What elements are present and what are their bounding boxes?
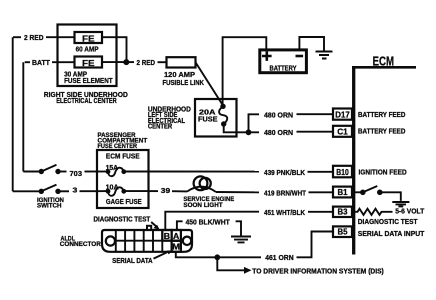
wire battery - to ground — [299, 37, 324, 51]
svg-text:SWITCH: SWITCH — [37, 202, 62, 209]
svg-text:CENTER: CENTER — [148, 124, 172, 131]
terminal D17 — [333, 109, 352, 120]
fuse element FE 30 AMP — [64, 57, 113, 85]
fuse element FE 60 AMP — [75, 32, 103, 53]
wire 451 to B3 — [308, 211, 333, 213]
svg-text:B10: B10 — [336, 168, 349, 177]
svg-text:439 PNK/BLK: 439 PNK/BLK — [264, 168, 306, 177]
node 419 BRN/WHT — [264, 189, 307, 198]
wire 20A fuse output — [224, 124, 259, 132]
wire lamp to 419 label — [216, 191, 259, 193]
wire ECM fuse output (439 row) — [149, 171, 260, 173]
wire 39 to lamp — [172, 190, 187, 192]
wire 451 from ALDL B to label — [165, 212, 259, 230]
svg-text:FUSE ELEMENT: FUSE ELEMENT — [64, 76, 113, 85]
arrow to DIS — [244, 267, 252, 274]
wire 3 to fuse center — [80, 190, 98, 192]
node 2 RED (left battery feed label) — [13, 33, 44, 42]
svg-text:CONNECTOR: CONNECTOR — [60, 241, 101, 248]
node 39 — [161, 186, 170, 195]
terminal B1 — [333, 187, 352, 198]
right side underhood electrical center box — [58, 25, 117, 87]
svg-text:B5: B5 — [338, 228, 348, 237]
service engine soon light — [187, 176, 216, 192]
node 703 — [70, 169, 83, 178]
wire 480 ORN to D17 — [297, 113, 334, 115]
label diagnostic test (right) — [358, 217, 418, 226]
ALDL pin A — [172, 230, 181, 241]
wire FE 30A output — [102, 61, 127, 63]
wire 2 RED feed into fuse element box — [46, 36, 75, 38]
ALDL pin B — [162, 230, 171, 241]
ECM label — [373, 54, 395, 68]
svg-text:DIAGNOSTIC TEST: DIAGNOSTIC TEST — [358, 217, 418, 226]
label ALDL connector — [60, 235, 101, 247]
svg-text:BATTERY FEED: BATTERY FEED — [358, 126, 405, 135]
fuse 20A element — [219, 104, 227, 127]
svg-text:DIAGNOSTIC TEST: DIAGNOSTIC TEST — [94, 215, 151, 224]
label battery feed (C1) — [358, 126, 405, 135]
ground (diagnostic switch) — [392, 202, 409, 206]
terminal C1 — [333, 126, 352, 137]
terminal B5 — [333, 226, 352, 237]
svg-text:B: B — [164, 232, 171, 241]
svg-text:39: 39 — [161, 186, 170, 195]
label to driver information system — [252, 266, 384, 275]
underhood left side electrical center caption — [148, 107, 191, 131]
caption right side underhood electrical center — [44, 90, 129, 105]
leader arrow to pin M — [154, 250, 174, 258]
wire 419 to B1 — [309, 191, 334, 193]
svg-text:C1: C1 — [337, 127, 348, 136]
junction dot fuse outputs — [123, 59, 129, 65]
svg-text:B1: B1 — [338, 188, 348, 197]
svg-text:451 WHT/BLK: 451 WHT/BLK — [264, 208, 306, 217]
node 451 WHT/BLK — [264, 208, 306, 217]
ignition switch contact (703 row) — [23, 165, 66, 174]
ECM outline — [352, 66, 416, 255]
svg-text:TO DRIVER INFORMATION SYSTEM (: TO DRIVER INFORMATION SYSTEM (DIS) — [252, 266, 384, 275]
ground (450 BLK/WHT) — [231, 237, 251, 243]
svg-text:FUSIBLE LINK: FUSIBLE LINK — [163, 78, 205, 87]
leader arrow to pin B — [151, 222, 159, 230]
wire 450 leader from pin A — [177, 221, 183, 230]
svg-text:A: A — [173, 232, 180, 241]
wire battery + to 20A fuse — [223, 37, 267, 106]
svg-text:SERIAL DATA: SERIAL DATA — [112, 256, 153, 265]
ALDL pin M — [172, 241, 181, 252]
svg-text:ECM FUSE: ECM FUSE — [106, 151, 140, 160]
node BATT label — [25, 58, 51, 67]
svg-text:ELECTRICAL CENTER: ELECTRICAL CENTER — [56, 96, 117, 105]
svg-text:480 ORN: 480 ORN — [264, 128, 293, 137]
terminal B10 — [333, 166, 352, 178]
node 480 ORN (bottom) — [264, 128, 293, 137]
wire to fusible link — [158, 61, 167, 63]
svg-text:FE: FE — [82, 34, 95, 44]
diagnostic switch at B1 — [352, 186, 401, 201]
fuse ECM 15A — [97, 163, 149, 176]
node 439 PNK/BLK — [264, 168, 306, 177]
svg-text:461 ORN: 461 ORN — [265, 253, 294, 262]
terminal B3 — [333, 207, 352, 217]
svg-text:SOON LIGHT: SOON LIGHT — [183, 202, 223, 209]
ALDL connector body — [102, 226, 192, 252]
svg-text:480 ORN: 480 ORN — [264, 110, 293, 119]
wire 480 ORN to C1 — [297, 131, 334, 133]
wire gage fuse output — [149, 190, 159, 192]
svg-text:450 BLK/WHT: 450 BLK/WHT — [186, 218, 231, 227]
svg-text:5-6 VOLT: 5-6 VOLT — [395, 207, 425, 216]
label serial data input — [358, 229, 425, 238]
node 450 BLK/WHT — [186, 218, 231, 227]
label ignition feed — [359, 168, 407, 177]
svg-text:BATTERY FEED: BATTERY FEED — [358, 110, 405, 119]
wire FE 60A output down to junction — [102, 37, 127, 62]
label service engine soon light — [183, 196, 234, 209]
wire BATT vertical to ignition switch — [22, 62, 24, 171]
label serial data — [112, 256, 153, 265]
svg-text:419 BRN/WHT: 419 BRN/WHT — [264, 189, 307, 198]
wire 2 RED vertical to ignition switch — [12, 37, 14, 191]
passenger compartment fuse center caption — [98, 132, 149, 150]
fuse GAGE 10A — [97, 182, 149, 206]
svg-text:703: 703 — [70, 169, 83, 178]
wire 439 to B10 — [308, 171, 334, 173]
svg-text:FUSE: FUSE — [198, 114, 218, 123]
ground (battery) — [316, 52, 333, 59]
fuse 20A box — [195, 99, 237, 137]
svg-text:2 RED: 2 RED — [24, 33, 44, 42]
wire branch up to D17 row — [249, 114, 260, 132]
fusible link 120 AMP — [163, 57, 205, 87]
passenger compartment fuse center box — [97, 150, 149, 208]
ignition switch contact (3 row) — [13, 185, 69, 194]
svg-text:D17: D17 — [335, 110, 350, 119]
wire 461 from pin M — [176, 252, 261, 257]
svg-text:IGNITION FEED: IGNITION FEED — [359, 168, 407, 177]
node 5-6 VOLT — [395, 207, 425, 216]
svg-text:FE: FE — [82, 58, 95, 68]
resistor at B3 — [352, 209, 393, 215]
svg-text:BATTERY: BATTERY — [270, 66, 297, 73]
wire BATT feed into fuse element box — [52, 61, 75, 63]
svg-text:B3: B3 — [338, 208, 348, 217]
wire branch to DIS — [217, 257, 244, 270]
svg-text:2 RED: 2 RED — [137, 58, 156, 67]
svg-text:60 AMP: 60 AMP — [76, 44, 99, 53]
label ECM FUSE — [106, 151, 140, 160]
label battery feed (D17) — [358, 110, 405, 119]
junction dot 480 ORN — [246, 129, 252, 135]
svg-text:3: 3 — [73, 186, 78, 195]
node 3 — [73, 186, 78, 195]
label diagnostic test (ALDL) — [94, 215, 151, 224]
node 2 RED (output of fuse elements) — [127, 58, 156, 67]
wire 461 to B5 — [297, 232, 334, 258]
node 461 ORN — [265, 253, 294, 262]
node 480 ORN (top) — [264, 110, 293, 119]
wire 450 to ground — [236, 221, 241, 235]
label ignition switch — [37, 197, 64, 210]
wire 703 to fuse center — [85, 171, 98, 173]
junction dot 461 — [214, 254, 220, 260]
svg-text:GAGE FUSE: GAGE FUSE — [106, 197, 142, 206]
svg-text:SERIAL DATA INPUT: SERIAL DATA INPUT — [358, 229, 425, 238]
svg-text:BATT: BATT — [32, 58, 50, 67]
battery — [260, 50, 307, 73]
svg-text:M: M — [172, 243, 180, 252]
wire diagonal fusible link to 20A fuse — [196, 62, 224, 105]
